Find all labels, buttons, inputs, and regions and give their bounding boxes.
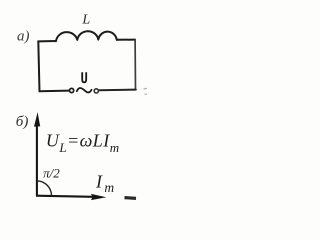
svg-text:UL=ωLIm: UL=ωLIm [46, 131, 120, 155]
svg-text:б): б) [16, 114, 29, 130]
svg-text:a): a) [17, 29, 30, 45]
svg-text:π/2: π/2 [43, 165, 60, 180]
svg-text:L: L [81, 13, 90, 28]
svg-text:Im: Im [95, 172, 114, 195]
